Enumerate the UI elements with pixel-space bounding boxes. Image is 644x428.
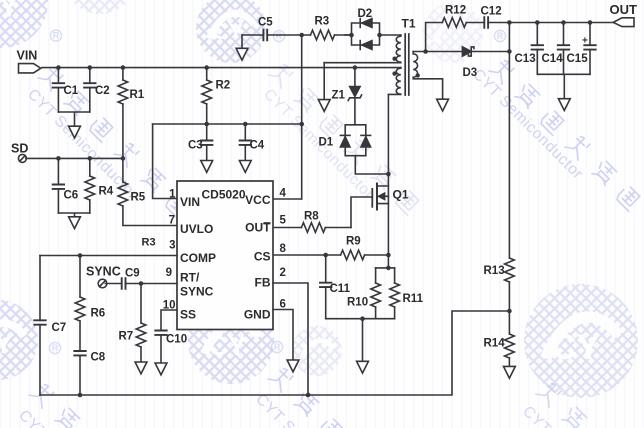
ground below R10 R11 — [357, 361, 369, 373]
capacitor C3 — [201, 141, 212, 145]
transistor Q1 MOSFET — [372, 184, 388, 210]
wire drain-source vertical — [387, 94, 389, 268]
svg-text:R12: R12 — [445, 5, 466, 17]
wire R5 to UVLO pin 7 — [123, 206, 177, 226]
wire C8 bottom lead — [79, 355, 81, 395]
connector OUT — [613, 18, 634, 27]
svg-text:R1: R1 — [130, 89, 145, 101]
wire C1/C2 ground join — [58, 112, 89, 126]
wire C6/R4 ground join — [58, 213, 89, 217]
wire R6 top lead — [79, 256, 81, 298]
svg-text:R4: R4 — [99, 186, 114, 198]
svg-text:R11: R11 — [403, 293, 424, 305]
wire R13 bottom lead — [508, 282, 510, 311]
capacitor C15 electrolytic — [584, 45, 595, 49]
svg-text:CY: CY — [551, 328, 600, 367]
terminal SD — [18, 154, 26, 162]
wire C2 bottom lead — [89, 88, 91, 112]
junction FB bus — [306, 393, 311, 398]
svg-text:CY: CY — [213, 19, 244, 44]
resistor R2 — [202, 80, 212, 104]
junction C8 bus — [78, 393, 83, 398]
wire D2 left stub — [345, 34, 352, 36]
resistor R4 — [85, 176, 95, 200]
svg-text:D1: D1 — [319, 137, 334, 149]
ground below C13 C14 C15 — [558, 99, 570, 111]
ground left of C5 — [236, 48, 248, 60]
wire C15 bottom lead — [589, 50, 591, 75]
junction C4 node — [243, 122, 248, 127]
capacitor C7 — [34, 320, 45, 324]
capacitor C4 — [240, 141, 251, 145]
ground below R7 — [135, 362, 147, 374]
svg-text:Q1: Q1 — [393, 188, 409, 202]
junction R6 top — [78, 253, 83, 258]
wire C13 top lead — [536, 23, 538, 46]
svg-text:SS: SS — [180, 308, 196, 322]
transformer T1 secondary winding — [413, 52, 442, 100]
transformer T1 primary winding bottom — [388, 68, 400, 95]
svg-text:C4: C4 — [250, 140, 265, 152]
svg-text:R3: R3 — [142, 237, 156, 249]
svg-text:R9: R9 — [346, 236, 361, 248]
svg-text:C3: C3 — [188, 140, 203, 152]
svg-text:R5: R5 — [131, 192, 146, 204]
svg-text:R10: R10 — [347, 297, 368, 309]
wire C6 bottom lead — [57, 189, 59, 213]
wire C4 top lead — [244, 124, 246, 141]
wire to IC pin 1 VIN — [153, 124, 177, 199]
svg-text:+: + — [582, 36, 588, 47]
wire C14 top lead — [563, 23, 565, 46]
wire R4 bottom lead — [89, 200, 91, 213]
svg-text:C6: C6 — [64, 190, 79, 202]
wire C6 top lead — [57, 158, 59, 184]
wire secondary to D3 — [413, 51, 462, 53]
svg-text:SYNC: SYNC — [86, 265, 121, 279]
wire R3 to D2 — [335, 34, 352, 36]
wire R12 to C12 — [466, 22, 484, 24]
svg-text:CY: CY — [209, 331, 247, 361]
resistor R14 — [505, 334, 515, 358]
junction VIN rail x=58.4 — [56, 65, 61, 70]
junction output node — [507, 49, 512, 54]
transformer T1 core — [405, 34, 409, 95]
op-amp U1 CD5020 controller — [177, 181, 273, 330]
wire R7 top lead — [140, 284, 142, 324]
junction R9 source node — [386, 253, 391, 258]
svg-text:UVLO: UVLO — [180, 222, 213, 236]
junction VIN rail x=206.7 — [204, 65, 209, 70]
svg-text:R14: R14 — [484, 338, 506, 350]
wire R12 left lead — [426, 23, 443, 52]
svg-text:VCC: VCC — [245, 193, 271, 207]
wire C3 bottom lead — [206, 145, 208, 161]
svg-text:SYNC: SYNC — [180, 285, 214, 299]
svg-text:COMP: COMP — [180, 251, 216, 265]
resistor R8 — [301, 223, 325, 233]
svg-text:C9: C9 — [125, 268, 140, 280]
wire C5 to R3 — [267, 34, 310, 36]
wire COMP pin 3 line — [40, 255, 177, 257]
diode D1 (parallel pair) — [340, 125, 370, 156]
junction VIN rail x=89.8 — [88, 65, 93, 70]
svg-text:C13: C13 — [515, 53, 536, 65]
resistor R9 — [341, 250, 365, 260]
svg-text:VIN: VIN — [17, 49, 38, 63]
capacitor C5 — [263, 30, 267, 41]
resistor R12 — [442, 18, 466, 28]
wire R1 bottom lead — [122, 104, 124, 158]
ground below C6 R4 — [69, 217, 81, 229]
ground secondary winding — [437, 99, 449, 111]
wire R10 top lead — [375, 268, 377, 283]
wire D2 to transformer — [380, 34, 401, 36]
wire Q1 gate to R8 — [351, 197, 372, 228]
wire VCC vertical riser — [301, 35, 303, 199]
svg-text:2: 2 — [280, 267, 286, 279]
svg-text:R: R — [52, 343, 59, 353]
wire R7 bottom lead — [140, 347, 142, 362]
svg-text:C2: C2 — [95, 85, 110, 97]
svg-text:CS: CS — [254, 249, 271, 263]
diode D2 (parallel pair) — [352, 19, 380, 50]
svg-text:C7: C7 — [52, 322, 67, 334]
junction R12 tap — [423, 49, 428, 54]
svg-text:10: 10 — [163, 300, 176, 312]
junction D2 right — [377, 33, 382, 38]
wire R2 bottom lead — [206, 104, 208, 124]
svg-text:R8: R8 — [304, 211, 319, 223]
svg-text:R7: R7 — [119, 331, 134, 343]
transformer phase dot primary bottom — [392, 71, 396, 75]
ground below C10 — [155, 363, 167, 375]
pin name OUT overline — [264, 222, 271, 224]
svg-text:9: 9 — [166, 267, 172, 279]
svg-text:CY: CY — [0, 331, 12, 359]
resistor R7 — [136, 323, 146, 347]
wire SD line — [26, 157, 123, 159]
ground primary top winding — [318, 100, 330, 112]
junction output rail x=590 — [588, 20, 593, 25]
wire C5 ground stem — [241, 35, 243, 48]
wire R6 to C8 — [79, 321, 81, 351]
wire C5 left lead — [242, 34, 263, 36]
wire R10/R11 bottom bus — [326, 318, 395, 320]
wire output rail — [509, 22, 613, 24]
zener diode Z1 — [348, 87, 361, 101]
svg-text:C14: C14 — [542, 53, 564, 65]
junction D1 drain node — [386, 172, 391, 177]
resistor R1 — [118, 80, 128, 104]
wire SS pin 10 to C10 — [161, 310, 177, 331]
wire OUT pin 5 to R8 — [273, 227, 301, 229]
wire FB pin 2 to divider — [273, 283, 308, 395]
svg-text:R3: R3 — [315, 16, 330, 28]
wire Z1 top lead — [354, 68, 356, 87]
junction D2 left — [349, 33, 354, 38]
svg-text:D2: D2 — [358, 8, 373, 20]
ground below R14 — [504, 366, 516, 378]
junction VIN rail x=354.9 — [353, 65, 358, 70]
svg-text:D3: D3 — [463, 67, 478, 79]
wire output to R13 — [508, 23, 510, 259]
wire C7 bottom lead — [39, 325, 41, 395]
svg-text:C11: C11 — [330, 283, 351, 295]
svg-text:CD5020: CD5020 — [202, 188, 246, 202]
ground below GND pin — [287, 360, 299, 372]
wire feedback bus — [40, 311, 509, 395]
svg-text:OUT: OUT — [610, 2, 638, 17]
wire R2 top lead — [206, 68, 208, 80]
svg-text:R: R — [497, 31, 504, 41]
resistor R11 — [390, 283, 400, 307]
wire C12 right lead — [488, 22, 509, 24]
transformer T1 primary winding top — [324, 35, 401, 63]
wire R8 right lead — [325, 227, 351, 229]
junction output rail x=563.5 — [561, 20, 566, 25]
wire R11 bottom lead — [394, 307, 396, 319]
resistor R10 — [371, 283, 381, 307]
ground below C4 — [239, 161, 251, 173]
capacitor C8 — [74, 351, 85, 355]
svg-text:R13: R13 — [484, 265, 505, 277]
transformer phase dot primary top — [392, 57, 396, 61]
svg-text:T1: T1 — [402, 17, 416, 31]
capacitor C10 — [155, 331, 166, 335]
junction C11 top — [323, 253, 328, 258]
wire R4 top lead — [89, 158, 91, 176]
wire D3 to output node — [471, 51, 509, 53]
wire C3 top lead — [206, 124, 208, 141]
svg-text:R: R — [53, 31, 60, 41]
wire C9 to RT/SYNC pin 9 — [126, 283, 178, 285]
diode D3 schottky — [462, 47, 474, 56]
svg-text:GND: GND — [244, 308, 271, 322]
svg-text:5: 5 — [280, 215, 287, 227]
wire GND pin 6 lead — [273, 310, 293, 361]
capacitor C2 — [84, 83, 95, 87]
svg-text:6: 6 — [280, 299, 286, 311]
svg-text:RT/: RT/ — [180, 271, 200, 285]
svg-text:SD: SD — [11, 142, 28, 156]
wire C14 bottom lead — [563, 50, 565, 75]
transformer phase dot secondary — [416, 73, 420, 77]
wire R14 bottom lead — [508, 358, 510, 366]
resistor R13 — [505, 258, 515, 282]
capacitor C14 — [558, 45, 569, 49]
junction SD line x=122.9 — [121, 156, 126, 161]
junction SD line x=89.8 — [88, 156, 93, 161]
wire R9 right lead — [365, 254, 389, 256]
capacitor C12 — [484, 17, 488, 28]
wire C4 bottom lead — [244, 145, 246, 161]
junction C5 R3 VCC node — [299, 33, 304, 38]
svg-text:8: 8 — [280, 243, 287, 255]
wire R14 top lead — [508, 311, 510, 334]
svg-text:R: R — [276, 31, 283, 41]
wire C1 top lead — [57, 68, 59, 84]
wire C2 top lead — [89, 68, 91, 84]
wire VCC pin 4 stub — [273, 198, 302, 200]
wire sense ground stem — [362, 319, 364, 362]
capacitor C11 — [320, 283, 331, 287]
wire C1 bottom lead — [57, 88, 59, 112]
wire R10/R11 top bus — [376, 267, 395, 269]
wire R5 top lead — [122, 158, 124, 182]
svg-text:R: R — [274, 342, 281, 352]
svg-text:R6: R6 — [91, 308, 106, 320]
wire SYNC to C9 — [105, 283, 121, 285]
svg-text:3: 3 — [169, 240, 175, 252]
svg-text:R2: R2 — [216, 80, 231, 92]
svg-text:C8: C8 — [91, 352, 106, 364]
svg-text:FB: FB — [255, 276, 271, 290]
ground below C3 — [201, 161, 213, 173]
svg-text:4: 4 — [280, 188, 287, 200]
connector VIN — [19, 64, 41, 73]
wire CS pin 8 line — [273, 254, 341, 256]
svg-text:CY: CY — [0, 0, 18, 24]
wire C7 top lead — [39, 256, 41, 321]
svg-text:C15: C15 — [567, 53, 589, 65]
wire C11 top lead — [325, 255, 327, 283]
resistor R3 — [311, 30, 335, 40]
svg-text:C5: C5 — [258, 17, 273, 29]
capacitor C6 — [53, 185, 64, 189]
wire output caps ground join — [537, 74, 590, 98]
wire R1 top lead — [122, 68, 124, 80]
junction output rail x=537.3 — [535, 20, 540, 25]
resistor R6 — [75, 297, 85, 321]
junction VIN rail x=122.9 — [121, 65, 126, 70]
capacitor C1 — [53, 83, 64, 87]
svg-text:1: 1 — [169, 189, 176, 201]
wire C13 bottom lead — [536, 50, 538, 75]
svg-text:7: 7 — [169, 215, 175, 227]
wire VIN rail — [42, 67, 401, 69]
junction R13 R14 divider — [507, 309, 512, 314]
capacitor C13 — [532, 45, 543, 49]
ground below C1 C2 — [69, 126, 81, 138]
svg-text:C10: C10 — [166, 334, 187, 346]
wire Z1 to D1 — [354, 98, 356, 125]
junction VCC vertical node — [299, 122, 304, 127]
junction R10/R11 top — [386, 266, 391, 271]
junction SD line x=58.4 — [56, 156, 61, 161]
junction R7 top — [139, 281, 144, 286]
svg-text:C1: C1 — [64, 85, 79, 97]
wire node line y=124 — [153, 123, 302, 125]
terminal SYNC — [98, 279, 107, 288]
wire primary-top to ground — [323, 63, 325, 100]
wire C15 top lead — [589, 23, 591, 46]
svg-text:VIN: VIN — [180, 195, 200, 209]
junction output rail left — [507, 20, 512, 25]
junction R2/C3 node — [204, 122, 209, 127]
svg-text:Z1: Z1 — [332, 90, 346, 102]
wire R11 top lead — [394, 268, 396, 283]
capacitor C9 — [122, 278, 126, 289]
svg-text:C12: C12 — [481, 6, 502, 18]
junction sense ground node — [360, 316, 365, 321]
wire C10 bottom lead — [160, 335, 162, 363]
wire C11 bottom lead — [325, 287, 327, 319]
wire R10 bottom lead — [375, 307, 377, 319]
resistor R5 — [118, 182, 128, 206]
wire D1 to drain — [355, 156, 388, 174]
